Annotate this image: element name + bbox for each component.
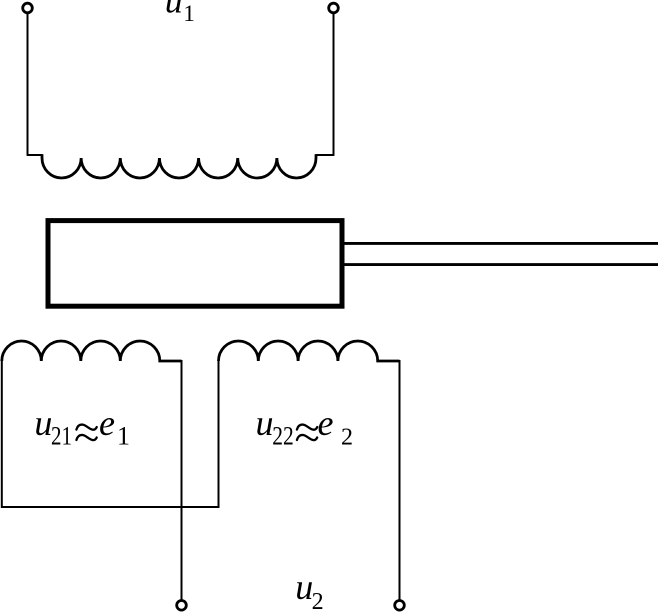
terminal T3 (bottom-left, secondary output) [177, 601, 187, 611]
terminal T1 (top-left, primary) [23, 3, 33, 13]
wire: series link, W21 left end down, across, up to W22 left end [2, 359, 219, 507]
terminal T4 (bottom-right, secondary output) [395, 601, 405, 611]
wire: primary winding left horizontal stub [27, 154, 43, 156]
label approx sign 2 (double tilde) [297, 425, 317, 441]
svg-text:e: e [99, 403, 115, 443]
svg-text:u: u [256, 403, 274, 443]
rod: upper edge of push rod [344, 242, 658, 245]
core: movable iron core rectangle [48, 221, 342, 307]
wire: primary winding right horizontal stub [316, 154, 335, 156]
svg-text:22: 22 [272, 422, 294, 451]
inductor W1: primary winding, 7 arcs bulging down [42, 154, 316, 178]
svg-text:u: u [295, 567, 313, 607]
inductor W22: secondary winding 2, 4 arcs bulging up [219, 341, 400, 361]
svg-text:e: e [318, 403, 334, 443]
svg-text:u: u [165, 0, 183, 21]
wire: W22 right lead down to terminal T4 [399, 360, 401, 601]
svg-text:21: 21 [51, 422, 72, 451]
svg-text:2: 2 [341, 425, 353, 451]
rod: lower edge of push rod [344, 263, 658, 266]
label approx sign 1 (double tilde) [76, 425, 96, 441]
svg-text:2: 2 [312, 589, 324, 613]
wire: left primary lead, T1 down to winding [27, 13, 29, 155]
terminal T2 (top-right, primary) [329, 3, 339, 13]
svg-text:u: u [34, 403, 52, 443]
svg-text:1: 1 [117, 422, 130, 451]
wire: right primary lead, T2 down to winding [333, 13, 335, 155]
svg-text:1: 1 [183, 1, 195, 26]
inductor W21: secondary winding 1, 4 arcs bulging up [2, 341, 182, 361]
wire: W21 right lead down to terminal T3 (crosses link wire) [181, 360, 183, 601]
